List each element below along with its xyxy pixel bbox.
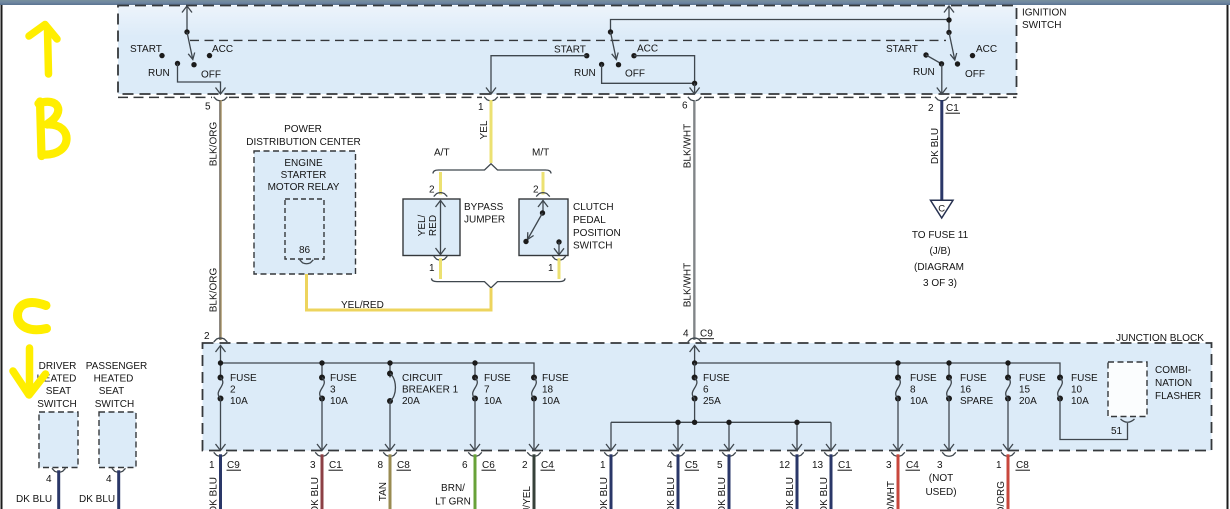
passenger heated seat switch box [99,412,136,468]
svg-text:RED/ORG: RED/ORG [996,481,1007,509]
label FUSE 15 20A [1019,373,1046,407]
svg-text:C1: C1 [329,460,342,471]
svg-text:LT GRN: LT GRN [435,497,471,508]
svg-text:3: 3 [937,460,943,471]
connector label C4 [541,460,556,471]
pin number 1 (fuse 6 branch) [600,460,606,471]
svg-text:RED/WHT: RED/WHT [886,481,897,509]
junction block output cup pin 3 [891,452,905,456]
right bus junction node (fuse 6) [692,360,697,365]
svg-text:SWITCH: SWITCH [95,399,134,410]
annotation arrow B (up) [29,25,57,75]
pin number 5 (fuse 6 branch) [717,460,723,471]
svg-text:CLUTCH: CLUTCH [573,202,614,213]
svg-text:YEL/RED: YEL/RED [341,300,384,311]
svg-text:FUSE: FUSE [960,373,987,384]
switch 2 START contact [584,53,589,58]
svg-text:BRN/: BRN/ [441,483,465,494]
connector label C1 [329,460,344,471]
connector label C5 (fuse 6 branch) [685,460,700,471]
distribution junction node 2 [692,420,697,425]
clutch switch pin 1 cup [552,256,566,260]
svg-text:(J/B): (J/B) [929,246,950,257]
combination flasher box [1108,362,1147,417]
svg-text:YEL/: YEL/ [417,214,428,236]
engine starter motor relay inner box K1 [285,199,324,259]
wire YEL/RED from merge brace to relay [307,262,492,310]
output wire DK BLU at pin 1 [610,454,613,509]
switch 2 ACC contact [631,53,636,58]
switch 3 feed wire to battery bus [944,6,954,33]
right bus junction node (fuse 8) [895,360,900,365]
distribution junction node 1 [675,420,680,425]
clutch switch pin 1 internal lead [554,242,564,255]
svg-text:M/T: M/T [532,148,549,159]
wire YEL A/T stub [439,172,442,195]
pin number 3 [310,460,316,471]
label BYPASS JUMPER [464,202,505,226]
pin number 6 [462,460,468,471]
label DK BLU (ignition output) [930,128,941,164]
label DK BLU/YEL (fuse 18 output) [522,486,533,509]
junction block output cup pin 13 (fuse 6 branch) [824,452,838,456]
wire BLK/WHT pin 6 to junction block [694,100,695,340]
distribution junction node 3 [726,420,731,425]
svg-text:1: 1 [600,460,606,471]
junction block output cup pin 5 (fuse 6 branch) [722,452,736,456]
svg-text:C9: C9 [227,460,240,471]
wire from switch 1 RUN to pin 5 [178,64,226,95]
svg-text:6: 6 [703,385,709,396]
svg-text:2: 2 [204,331,210,342]
label PASSENGER HEATED SEAT SWITCH [86,361,148,410]
svg-text:MOTOR RELAY: MOTOR RELAY [268,182,340,193]
label FUSE 18 10A [542,373,569,407]
power distribution center box [254,151,356,274]
label DK BLU (pin 4) [666,477,677,509]
label DRIVER HEATED SEAT SWITCH [37,361,77,410]
ignition switch 1 feed wire to battery bus [182,6,192,33]
output wire DK BLU at pin 13 [830,454,833,509]
label DK BLU (pin 12) [785,477,796,509]
label BLK/WHT (lower) [683,263,694,307]
label RUN (switch 2) [574,68,596,79]
label JUNCTION BLOCK [1116,333,1204,344]
label YEL/RED [341,300,384,311]
label START (switch 1) [130,44,162,55]
pin number 2 (clutch switch) [533,185,539,196]
svg-text:C1: C1 [946,103,959,114]
label A/T [434,148,450,159]
pin number 4 (junction block top) [683,329,689,340]
svg-text:16: 16 [960,385,972,396]
switch 3 feed junction node [946,17,951,22]
switch 2 RUN contact [599,62,604,67]
distribution junction node 4 [794,420,799,425]
annotation arrow C (down) [13,348,46,395]
svg-text:C: C [938,204,945,215]
fuse 2 element [216,375,226,451]
svg-text:SPARE: SPARE [960,396,993,407]
label BLK/ORG (upper) [209,122,220,167]
svg-text:USED): USED) [925,487,956,498]
wire DK BLU driver switch [57,470,60,509]
label CIRCUIT BREAKER 1 20A [402,373,459,407]
junction block output cup pin 12 (fuse 6 branch) [790,452,804,456]
pin number 51 [1111,426,1123,437]
pin number 1 [478,102,484,113]
svg-text:2: 2 [429,185,435,196]
pin number 1 [996,460,1002,471]
svg-text:TAN: TAN [378,482,389,501]
svg-text:BLK/WHT: BLK/WHT [683,124,694,168]
output wire at pin 1 [219,454,222,509]
left bus junction node (circuit breaker 1) [387,360,392,365]
pin number 1 (clutch switch) [548,263,554,274]
svg-text:1: 1 [478,102,484,113]
driver switch pin 4 cup [52,468,66,472]
svg-text:(NOT: (NOT [929,473,953,484]
junction block output cup pin 3 [942,452,956,456]
svg-text:2: 2 [928,103,934,114]
svg-text:DK BLU: DK BLU [79,494,115,505]
output wire at pin 3 [321,454,324,509]
driver heated seat switch box [39,412,78,468]
annotation letter B [39,102,67,157]
svg-text:FUSE: FUSE [703,373,730,384]
wire node A to pin 6 [690,83,700,94]
switch 1 START contact [159,53,164,58]
connector label C8 [397,460,412,471]
output wire DK BLU at pin 5 [728,454,731,509]
svg-text:3: 3 [310,460,316,471]
junction block left bus wire [221,363,535,378]
svg-text:ACC: ACC [212,44,233,55]
svg-text:JUMPER: JUMPER [464,215,505,226]
svg-text:(DIAGRAM: (DIAGRAM [914,262,964,273]
svg-text:20A: 20A [1019,396,1037,407]
fuse 6 element [692,363,698,422]
left page border [1,5,3,509]
svg-text:DK BLU: DK BLU [819,477,830,509]
wire from switch 2 ACC to node A [634,56,695,84]
svg-text:RUN: RUN [913,67,935,78]
svg-text:PASSENGER: PASSENGER [86,361,148,372]
svg-text:6: 6 [462,460,468,471]
junction block right bus wire [695,363,1060,378]
label FUSE 3 10A [330,373,357,407]
svg-text:FUSE: FUSE [1019,373,1046,384]
left bus junction node (fuse 7) [472,360,477,365]
relay pin 86 cup [300,260,314,264]
svg-text:4: 4 [106,474,112,485]
fuse 15 element [1003,375,1013,451]
fuse 18 element [529,375,539,451]
pin number 6 [682,101,688,112]
svg-text:C8: C8 [1016,460,1029,471]
A/T M/T merge brace [432,278,566,287]
svg-text:51: 51 [1111,426,1123,437]
label FUSE 8 10A [910,373,937,407]
svg-text:3 OF 3): 3 OF 3) [923,278,957,289]
svg-text:YEL: YEL [479,120,490,139]
svg-text:FUSE: FUSE [542,373,569,384]
svg-text:25A: 25A [703,396,721,407]
svg-text:OFF: OFF [965,69,985,80]
pin number 2 [522,460,528,471]
combination flasher pin 51 cup [1121,419,1135,422]
label START (switch 3) [886,44,918,55]
svg-text:START: START [886,44,918,55]
label FUSE 7 10A [484,373,511,407]
svg-text:SWITCH: SWITCH [1022,20,1061,31]
label RED/ORG (fuse 15 output) [996,481,1007,509]
svg-text:CIRCUIT: CIRCUIT [402,373,443,384]
svg-text:DK BLU: DK BLU [310,477,321,509]
annotation letter C [18,302,47,329]
connector label C1 (ignition) [946,103,961,114]
svg-text:NATION: NATION [1155,378,1192,389]
svg-text:1: 1 [548,263,554,274]
svg-text:8: 8 [378,460,384,471]
clutch switch lever [528,213,543,240]
pin 2 connector cup (C1) [935,97,949,101]
junction block output cup pin 1 (fuse 6 branch) [604,452,618,456]
A/T M/T split brace [433,164,551,174]
switch 1 RUN contact [175,61,180,66]
svg-text:7: 7 [484,385,490,396]
label OFF (switch 1) [201,70,221,81]
fuse 7 element [470,375,480,451]
svg-text:ENGINE: ENGINE [284,158,323,169]
svg-text:1: 1 [209,460,215,471]
ignition switch internal partition dashed line [190,39,946,41]
svg-text:HEATED: HEATED [94,374,134,385]
junction block box [203,343,1212,451]
pin number 3 [886,460,892,471]
wire from switch 3 RUN to pin 2 [937,64,947,94]
pin number 5 [205,102,211,113]
svg-text:10A: 10A [230,396,248,407]
svg-text:10A: 10A [484,396,502,407]
switch 1 OFF contact [191,62,196,67]
left bus junction node (fuse 2) [218,360,223,365]
svg-text:2: 2 [230,385,236,396]
connector label C4 [906,460,921,471]
svg-text:ACC: ACC [637,44,658,55]
label FUSE 6 25A [703,373,730,407]
svg-text:START: START [130,44,162,55]
connector label C9 [227,460,242,471]
output wire DK BLU at pin 4 [677,454,680,509]
svg-text:DRIVER: DRIVER [39,361,77,372]
label ACC (switch 1) [212,44,233,55]
switch 3 ACC contact [970,53,975,58]
label DK BLU (pin 5) [717,477,728,509]
label BLK/ORG (lower) [209,268,220,313]
svg-text:OFF: OFF [201,70,221,81]
svg-text:4: 4 [46,474,52,485]
svg-text:10A: 10A [330,396,348,407]
svg-text:DK BLU/YEL: DK BLU/YEL [522,486,533,509]
label DK BLU (fuse 3 output) [310,477,321,509]
junction block entry cup (pin 2) [214,338,228,342]
svg-text:3: 3 [886,460,892,471]
junction block entry arrow (left) [216,346,226,364]
connector label C8 [1016,460,1031,471]
label (NOT USED) [925,473,956,498]
switch 2 OFF contact [616,62,621,67]
label M/T [532,148,549,159]
wire from switch 2 START to pin 1 [486,56,587,94]
svg-text:2: 2 [533,185,539,196]
fuse 16 element [944,375,954,451]
svg-text:DK BLU: DK BLU [599,477,610,509]
switch 2 lever arrow [611,32,619,60]
pin number 8 [378,460,384,471]
wire DK BLU passenger switch [117,470,120,509]
left bus junction node (fuse 3) [319,360,324,365]
wire YEL from pin 1 [490,100,493,163]
bypass jumper pin 1 cup [434,256,448,260]
clutch switch lower-left contact [523,239,528,244]
label BLK/WHT (upper) [683,124,694,168]
svg-text:DK BLU: DK BLU [785,477,796,509]
clutch switch lower-right contact [556,239,561,244]
connector label C6 [482,460,497,471]
label YEL/ RED (inside bypass jumper) [417,214,439,236]
junction block output cup pin 3 [315,452,329,456]
svg-text:BREAKER 1: BREAKER 1 [402,385,459,396]
switch 3 lever arrow [949,32,957,60]
passenger switch pin 4 cup [112,468,126,472]
label ENGINE STARTER MOTOR RELAY [268,158,340,193]
svg-text:RUN: RUN [148,68,170,79]
label TO FUSE 11 (J/B) (DIAGRAM 3 OF 3) [912,230,969,289]
output wire at pin 6 [474,454,477,509]
wire DK BLU from pin 2 C1 [940,100,943,200]
svg-text:8: 8 [910,385,916,396]
label OFF (switch 2) [625,69,645,80]
junction block output cup pin 2 [527,452,541,456]
ignition switch connector face dashed line [118,96,1017,98]
label FUSE 10 10A [1071,373,1098,407]
wire YEL M/T stub [542,172,545,195]
svg-text:STARTER: STARTER [281,170,327,181]
svg-text:10A: 10A [542,396,560,407]
pin number 1 (bypass jumper) [429,263,435,274]
svg-text:BLK/WHT: BLK/WHT [683,263,694,307]
label CLUTCH PEDAL POSITION SWITCH [573,202,621,252]
pin number 4 (passenger switch) [106,474,112,485]
label OFF (switch 3) [965,69,985,80]
svg-text:SEAT: SEAT [99,386,124,397]
circuit breaker BREAKER 1 element [385,371,395,451]
label START (switch 2) [554,45,586,56]
switch 3 START contact [923,52,928,57]
node A junction (switch 2 output) [692,81,697,86]
pin 6 connector cup [688,97,702,101]
svg-text:1: 1 [996,460,1002,471]
svg-text:SWITCH: SWITCH [573,241,612,252]
connector label C1 (fuse 6 branch) [838,460,853,471]
fuse 3 element [317,375,327,451]
fuse 6 distribution wire [606,422,836,450]
label DK BLU (passenger switch) [79,494,115,505]
right bus junction node (fuse 15) [1005,360,1010,365]
wire from switch 2 RUN to node A [602,64,695,83]
svg-text:4: 4 [683,329,689,340]
svg-text:DK BLU: DK BLU [717,477,728,509]
junction block output cup pin 1 [214,452,228,456]
label FUSE 16 SPARE [960,373,993,407]
svg-text:13: 13 [812,460,824,471]
label DK BLU (pin 13) [819,477,830,509]
switch 3 pivot node [946,30,951,35]
pin number 86 (relay) [299,245,311,256]
pin number 1 [209,460,215,471]
svg-text:86: 86 [299,245,311,256]
ignition switch component box [118,6,1017,95]
svg-text:10A: 10A [910,396,928,407]
output wire at pin 3 [897,454,900,509]
svg-text:C1: C1 [838,460,851,471]
svg-text:START: START [554,45,586,56]
connector label C9 (junction block top) [700,329,715,340]
label TAN (circuit breaker 1 output) [378,482,389,501]
clutch switch pin 2 internal lead [538,200,548,213]
svg-text:JUNCTION BLOCK: JUNCTION BLOCK [1116,333,1204,344]
bypass jumper internal jumper wire [436,200,446,255]
svg-text:BLK/ORG: BLK/ORG [209,122,220,167]
svg-text:DK BLU: DK BLU [209,477,220,509]
bypass jumper pin 2 cup [434,193,448,197]
svg-text:PEDAL: PEDAL [573,215,606,226]
svg-text:12: 12 [779,460,791,471]
pin 5 connector cup [214,97,228,101]
svg-text:RED: RED [428,215,439,236]
svg-text:20A: 20A [402,396,420,407]
svg-text:5: 5 [205,102,211,113]
svg-text:15: 15 [1019,385,1031,396]
svg-text:FLASHER: FLASHER [1155,391,1201,402]
off-page connector triangle C [931,200,954,218]
label RUN (switch 3) [913,67,935,78]
label COMBI- NATION FLASHER [1155,365,1201,402]
wire BLK/ORG pin 5 to junction block [220,100,221,340]
bypass jumper box [403,199,460,256]
svg-text:6: 6 [682,101,688,112]
label ACC (switch 2) [637,44,658,55]
pin 1 connector cup [484,97,498,101]
label FUSE 2 10A [230,373,257,407]
svg-text:DK BLU: DK BLU [16,494,52,505]
label BRN/ LT GRN (fuse 7 output) [435,483,471,508]
pin number 2 [928,103,934,114]
svg-text:C6: C6 [482,460,495,471]
output wire at pin 8 [389,454,392,509]
clutch switch pin 2 cup [536,193,550,197]
junction block entry cup (pin 4 C9) [688,338,702,342]
svg-text:C8: C8 [397,460,410,471]
svg-text:COMBI-: COMBI- [1155,365,1191,376]
switch 1 lever arrow [187,32,195,60]
label POWER DISTRIBUTION CENTER [246,124,360,148]
clutch pedal position switch box U-CPP [519,199,568,256]
svg-text:10: 10 [1071,385,1083,396]
label RED/WHT (fuse 8 output) [886,481,897,509]
junction block output cup pin 8 [383,452,397,456]
